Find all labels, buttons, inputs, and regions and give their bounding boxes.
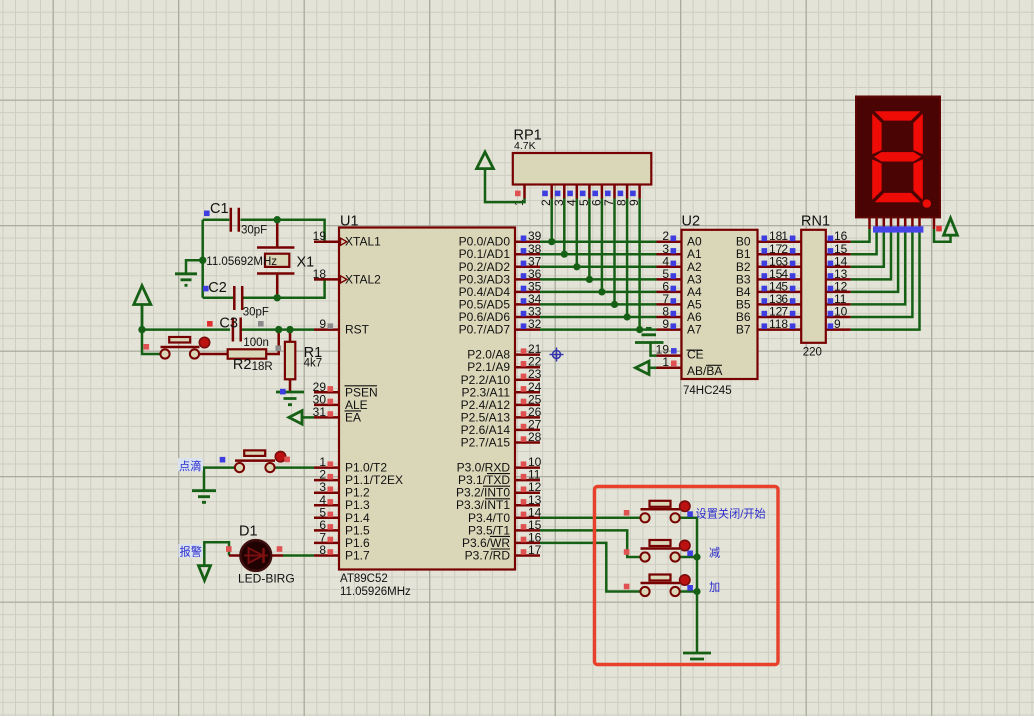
svg-text:AB/BA: AB/BA	[687, 364, 722, 378]
junction rail plus	[693, 588, 700, 595]
wire RN1 pin 12 to display segment	[851, 229, 898, 292]
pin 39 U1 P0.0/AD0	[459, 229, 542, 249]
pin 17 U2 B1 and pin 2 RN1	[736, 242, 801, 261]
pin 21 U1 P2.0/A8	[467, 342, 541, 362]
wire RP1 pin 4 drop	[576, 199, 579, 267]
pin 35 U1 P0.4/AD4	[459, 279, 542, 299]
value C2 30pF	[243, 307, 269, 319]
pin 5 RP1	[577, 185, 591, 207]
pin 4 U2 A2	[657, 254, 703, 274]
pin 18 U2 B0 and pin 1 RN1	[736, 229, 801, 249]
svg-text:220: 220	[803, 347, 822, 359]
pin 15 RN1	[826, 242, 851, 256]
pin 11 RN1	[826, 292, 851, 306]
label C3	[207, 316, 264, 332]
value 11.05926MHz	[340, 586, 411, 598]
ground crystal	[175, 274, 197, 286]
svg-text:11.05926MHz: 11.05926MHz	[340, 586, 411, 598]
pin 2 U2 A0	[657, 229, 703, 249]
value RN1 220	[803, 347, 822, 359]
pin 18 U1 XTAL2	[313, 267, 381, 287]
wire RST net C3 to pin	[242, 328, 314, 331]
pin 36 U1 P0.3/AD3	[459, 267, 542, 287]
svg-text:B7: B7	[736, 323, 751, 337]
pin display segment 8 stub	[918, 217, 921, 229]
pin 16 RN1	[826, 229, 851, 243]
svg-text:9: 9	[662, 317, 669, 331]
resistor R1	[285, 330, 295, 391]
display segment E	[873, 160, 882, 199]
svg-text:D1: D1	[239, 524, 258, 540]
pin display segment 4 stub	[890, 217, 893, 229]
pin 1 RP1	[512, 185, 526, 207]
pin 7 U1 P1.6	[314, 530, 370, 550]
pin 15 U2 B3 and pin 4 RN1	[736, 267, 801, 287]
ground buttons	[683, 653, 711, 664]
wire RN1 pin 13 to display segment	[851, 229, 891, 279]
resistor pack RP1 body	[513, 153, 652, 185]
pin 4 U1 P1.3	[314, 493, 370, 512]
svg-text:18R: 18R	[252, 361, 273, 373]
junction C1 node	[274, 216, 281, 223]
pin 13 RN1	[826, 267, 851, 281]
svg-text:31: 31	[313, 405, 327, 419]
junction RP1 tap 8	[624, 313, 631, 320]
junction RP1 tap 9	[636, 326, 643, 333]
value R2 18R	[252, 361, 273, 373]
ground R1	[276, 389, 304, 405]
label button minus (Chinese)	[709, 547, 720, 560]
value C1 30pF	[241, 225, 267, 237]
svg-text:LED-BIRG: LED-BIRG	[238, 572, 295, 586]
value AT89C52	[340, 573, 388, 585]
pin 8 RP1	[615, 185, 629, 207]
crystal X1	[257, 220, 294, 298]
power VCC arrow RP1	[477, 152, 525, 202]
svg-text:U1: U1	[340, 214, 359, 230]
pin 3 U1 P1.2	[314, 480, 370, 500]
svg-text:9: 9	[834, 317, 841, 331]
pin 31 U1 EA	[313, 405, 361, 425]
svg-text:报警: 报警	[180, 545, 202, 559]
pin 7 U2 A5	[657, 292, 703, 312]
pin 12 RN1	[826, 279, 851, 293]
label C2	[203, 280, 227, 296]
pin 7 RP1	[602, 185, 616, 207]
svg-text:30pF: 30pF	[241, 225, 267, 237]
wire P0.7 to U2 A7	[540, 328, 657, 331]
svg-text:点滴: 点滴	[179, 459, 201, 473]
svg-text:32: 32	[528, 317, 542, 331]
display 7-segment body	[856, 97, 940, 218]
wire display common to VCC	[934, 229, 951, 242]
svg-text:28: 28	[528, 430, 542, 444]
svg-text:4k7: 4k7	[304, 358, 323, 370]
pin 16 U2 B2 and pin 3 RN1	[736, 254, 801, 274]
pin 11 U2 B7 and pin 8 RN1	[736, 317, 801, 337]
svg-text:9: 9	[319, 317, 326, 331]
junction rail minus	[693, 553, 700, 560]
pin 2 U1 P1.1/T2EX	[314, 468, 403, 488]
pin 6 U2 A4	[657, 279, 703, 299]
pin display segment 1 stub	[868, 217, 871, 229]
svg-text:74HC245: 74HC245	[683, 385, 732, 397]
button drip	[220, 450, 290, 472]
button minus	[624, 540, 693, 562]
arrow EA input	[289, 411, 314, 424]
wire net XTAL1 left: rail to C1 left plate	[203, 218, 230, 221]
value 74HC245	[683, 385, 732, 397]
label drip (Chinese)	[178, 458, 203, 473]
wire P3.4 to set button	[540, 517, 641, 520]
svg-text:XTAL1: XTAL1	[345, 235, 381, 249]
junction left rail	[199, 257, 206, 264]
label RN1	[801, 214, 830, 230]
pin 1 U2 AB/BA	[657, 355, 723, 378]
svg-text:A7: A7	[687, 323, 702, 337]
pin 9 U2 A7	[657, 317, 703, 337]
pin display segment 6 stub	[904, 217, 907, 229]
svg-text:XTAL2: XTAL2	[345, 272, 381, 286]
pin 10 RN1	[826, 305, 851, 319]
wire left rail C1-C2	[201, 220, 204, 298]
marker origin crosshair	[550, 348, 564, 362]
svg-text:RST: RST	[345, 323, 370, 337]
svg-text:R2: R2	[233, 357, 252, 373]
capacitor C1	[231, 208, 239, 232]
pin 10 U1 P3.0/RXD	[457, 455, 542, 475]
wire rail to ground	[186, 260, 203, 272]
pin 1 U1 P1.0/T2	[314, 455, 387, 475]
wire RN1 pin 10 to display segment	[851, 229, 913, 317]
wire RN1 pin 9 to display segment	[851, 229, 920, 330]
wire RP1 pin 6 drop	[601, 199, 604, 292]
junction RP1 tap 3	[561, 251, 568, 258]
svg-text:X1: X1	[297, 255, 315, 271]
pin 14 RN1	[826, 254, 851, 268]
wire button to P1.0 pin	[275, 466, 315, 469]
pin 27 U1 P2.6/A14	[461, 417, 542, 437]
pin 17 U1 P3.7/RD	[465, 543, 542, 563]
pin 11 U1 P3.1/TXD	[458, 468, 541, 488]
junction RP1 tap 2	[548, 238, 555, 245]
label U1	[340, 214, 359, 230]
pin 6 RP1	[589, 185, 603, 207]
pin 2 RP1	[539, 185, 553, 207]
wire RP1 pin 3 drop	[563, 199, 566, 255]
button plus	[624, 575, 693, 597]
pin 12 U1 P3.2/INT0	[456, 480, 542, 500]
svg-text:17: 17	[528, 543, 542, 557]
wire LED to arrow	[204, 542, 229, 565]
svg-text:EA: EA	[345, 410, 361, 424]
pin 19 U1 XTAL1	[313, 229, 381, 249]
capacitor C3	[233, 318, 241, 342]
pin 19 U2 CE	[656, 343, 704, 362]
svg-text:C3: C3	[219, 316, 238, 332]
pin 13 U2 B5 and pin 6 RN1	[736, 292, 801, 312]
button set	[624, 501, 693, 523]
svg-text:18: 18	[313, 267, 327, 281]
ground drip button	[192, 491, 216, 503]
pin 13 U1 P3.3/INT1	[456, 493, 542, 512]
svg-text:P2.7/A15: P2.7/A15	[461, 436, 511, 450]
display segment A	[875, 112, 919, 121]
junction VCC node	[138, 326, 145, 333]
pin 32 U1 P0.7/AD7	[459, 317, 542, 337]
svg-text:1: 1	[662, 355, 669, 369]
power VCC arrow reset	[134, 286, 151, 330]
pin 9 RP1	[627, 185, 641, 207]
power VCC arrow display	[944, 218, 958, 235]
pin 28 U1 P2.7/A15	[461, 430, 542, 450]
pin 3 RP1	[552, 185, 566, 207]
value RP1 4.7K	[514, 140, 536, 152]
value 11.05692MHz	[206, 256, 277, 268]
pin 38 U1 P0.1/AD1	[459, 242, 542, 261]
label RP1	[514, 128, 542, 144]
value C3 100n	[243, 337, 269, 349]
label X1	[297, 255, 315, 271]
label D1	[239, 524, 258, 540]
pin 30 U1 ALE	[313, 392, 368, 412]
display segment G	[875, 152, 921, 161]
value LED-BIRG	[238, 572, 295, 586]
wire RP1 pin 5 drop	[588, 199, 591, 280]
junction RP1 tap 6	[598, 288, 605, 295]
junction R2-RST	[275, 326, 282, 333]
pin display segment 7 stub	[911, 217, 914, 229]
label button set (Chinese)	[696, 506, 766, 520]
svg-text:减: 减	[709, 547, 720, 560]
pin 5 U1 P1.4	[314, 505, 370, 525]
pin display segment 2 stub	[875, 217, 878, 229]
junction RP1 tap 4	[573, 263, 580, 270]
svg-text:11: 11	[769, 317, 782, 331]
wire RP1 pin 7 drop	[613, 199, 616, 305]
svg-text:C1: C1	[210, 201, 229, 217]
arrow AB/BA input	[636, 361, 657, 374]
wire net XTAL1: C1 right plate to U1 XTAL1 pin	[241, 220, 325, 242]
label C1	[204, 201, 229, 217]
wire RN1 pin 15 to display segment	[851, 229, 877, 254]
wire RN1 pin 16 to display segment	[851, 229, 870, 242]
svg-text:9: 9	[627, 199, 641, 206]
wire button to ground	[204, 468, 235, 490]
svg-text:C2: C2	[208, 280, 227, 296]
label alarm (Chinese)	[179, 544, 203, 559]
resistor R2	[199, 330, 281, 359]
display segment B	[914, 114, 923, 154]
label R1	[304, 345, 323, 361]
display blue bar	[873, 226, 923, 232]
wire RP1 pin 2 drop	[550, 199, 553, 242]
pin 29 U1 PSEN	[313, 380, 378, 400]
pin display segment 5 stub	[897, 217, 900, 229]
wire P0.5 to U2 A5	[540, 303, 657, 306]
display segment C	[914, 160, 923, 199]
svg-text:19: 19	[313, 229, 327, 243]
svg-text:8: 8	[319, 543, 326, 557]
svg-text:100n: 100n	[243, 337, 269, 349]
svg-text:AT89C52: AT89C52	[340, 573, 388, 585]
op U1 body AT89C52	[339, 228, 515, 570]
wire RN1 pin 14 to display segment	[851, 229, 884, 267]
pin 22 U1 P2.1/A9	[467, 355, 541, 375]
svg-text:8: 8	[781, 317, 788, 331]
svg-text:P0.7/AD7: P0.7/AD7	[459, 323, 511, 337]
wire P0.3 to U2 A3	[540, 278, 657, 281]
label button plus (Chinese)	[709, 581, 720, 594]
pin 34 U1 P0.5/AD5	[459, 292, 542, 312]
pin 3 U2 A1	[657, 242, 703, 261]
arrow output (down)	[199, 566, 211, 581]
pin 8 U2 A6	[657, 305, 703, 325]
pin 15 U1 P3.5/T1	[468, 518, 542, 538]
pin 33 U1 P0.6/AD6	[459, 305, 542, 325]
pin 6 U1 P1.5	[314, 518, 370, 538]
LED D1	[226, 540, 283, 571]
junction C2 node	[274, 294, 281, 301]
pin 9 RN1	[826, 317, 851, 331]
label R2	[233, 357, 252, 373]
pin 8 U1 P1.7	[314, 543, 370, 563]
op U2 body 74HC245	[682, 230, 758, 379]
junction RP1 tap 5	[586, 276, 593, 283]
wire P3.5 to minus button	[540, 530, 641, 557]
wire RN1 pin 11 to display segment	[851, 229, 905, 304]
wire RP1 pin 8 drop	[626, 199, 629, 318]
pin 14 U2 B4 and pin 5 RN1	[736, 279, 801, 299]
wire buttons right rail to ground	[680, 518, 697, 652]
pin 24 U1 P2.3/A11	[462, 380, 542, 400]
svg-text:4.7K: 4.7K	[514, 140, 536, 152]
pin 9 U1 RST	[314, 317, 370, 337]
junction RP1 tap 7	[611, 301, 618, 308]
wire P0.6 to U2 A6	[540, 316, 657, 319]
pin 37 U1 P0.2/AD2	[459, 254, 542, 274]
wire P0.0 to U2 A0	[540, 240, 657, 243]
pin display common stub	[933, 217, 936, 229]
wire P3.6 to plus button	[540, 543, 641, 592]
pin 16 U1 P3.6/WR	[462, 530, 542, 550]
svg-text:U2: U2	[682, 214, 701, 230]
svg-text:11.05692MHz: 11.05692MHz	[206, 256, 277, 268]
wire P0.1 to U2 A1	[540, 253, 657, 256]
svg-text:加: 加	[709, 581, 720, 594]
pin 26 U1 P2.5/A13	[461, 405, 542, 425]
display decimal point	[923, 199, 931, 207]
svg-text:设置关闭/开始: 设置关闭/开始	[696, 506, 766, 520]
value R1 4k7	[304, 358, 323, 370]
wire RP1 pin 9 drop	[638, 199, 641, 330]
pin 14 U1 P3.4/T0	[468, 505, 542, 525]
svg-text:30pF: 30pF	[243, 307, 269, 319]
wire VCC to C3 left	[142, 328, 230, 331]
pin display segment 3 stub	[883, 217, 886, 229]
wire LED to P1.7 pin	[283, 554, 314, 557]
pin 12 U2 B6 and pin 7 RN1	[736, 305, 801, 325]
pin 4 RP1	[564, 185, 578, 207]
svg-text:P1.7: P1.7	[345, 549, 370, 563]
selection box red	[595, 487, 779, 665]
wire net XTAL2: C2 right plate to U1 XTAL2 pin	[203, 279, 325, 297]
square display common	[936, 226, 942, 232]
svg-text:RN1: RN1	[801, 214, 830, 230]
ground CE (rotated)	[635, 328, 664, 355]
button reset	[144, 337, 210, 359]
resistor network RN1 body	[801, 230, 826, 343]
label U2	[682, 214, 701, 230]
pin 23 U1 P2.2/A10	[461, 367, 542, 387]
wire VCC branch to reset button	[142, 330, 161, 354]
junction R1-RST	[286, 326, 293, 333]
svg-text:P3.7/RD: P3.7/RD	[465, 549, 511, 563]
wire P0.4 to U2 A4	[540, 291, 657, 294]
display segment F	[873, 114, 882, 154]
wire P0.2 to U2 A2	[540, 266, 657, 269]
pin 25 U1 P2.4/A12	[461, 392, 542, 412]
display segment D	[875, 193, 919, 202]
pin 5 U2 A3	[657, 267, 703, 287]
capacitor C2	[234, 286, 242, 310]
